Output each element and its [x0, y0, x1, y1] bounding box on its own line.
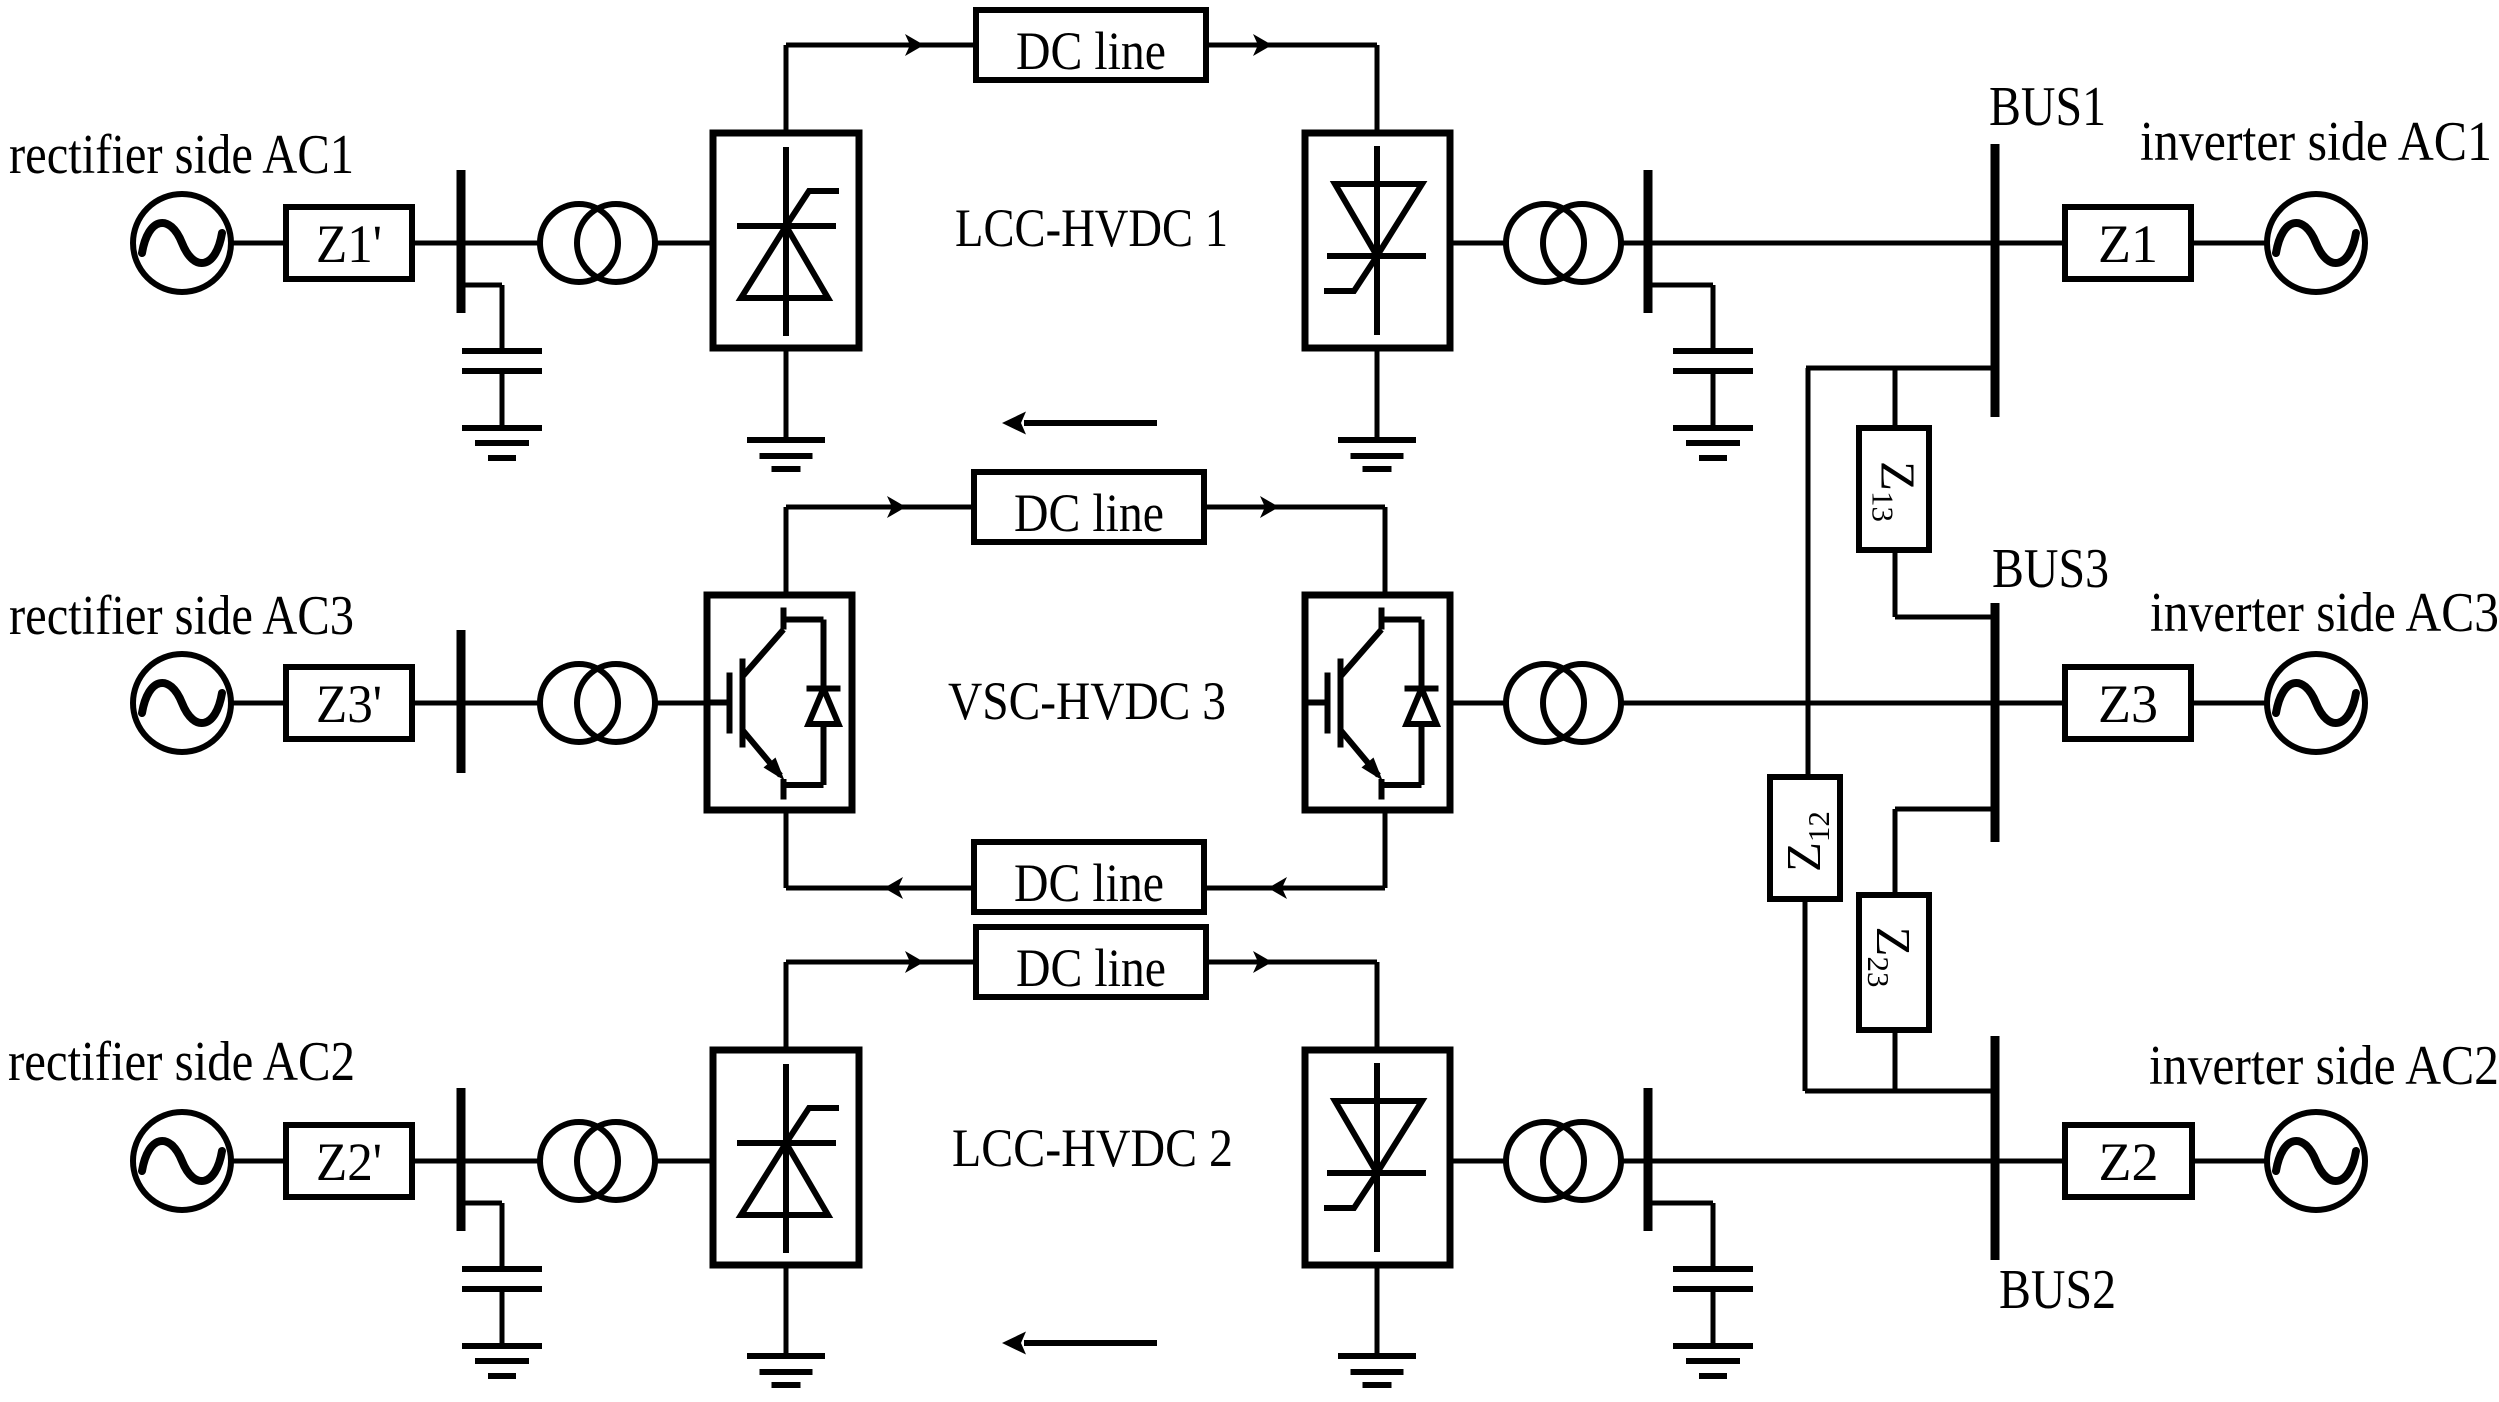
- svg-text:DC line: DC line: [1014, 853, 1164, 913]
- wire: [1383, 507, 1388, 595]
- wire: [466, 283, 503, 288]
- arrow DC line 3 bottom right: [1268, 877, 1287, 899]
- svg-text:DC line: DC line: [1016, 938, 1166, 998]
- wire: [786, 960, 976, 965]
- ground rectifier converter 2: [747, 1356, 825, 1385]
- wire: [466, 701, 541, 706]
- DC line 1 box: [976, 10, 1206, 81]
- AC source rectifier AC2: [133, 1112, 231, 1210]
- wire: [1653, 1201, 1714, 1206]
- thyristor valve rectifier 1: [737, 147, 839, 336]
- ground inverter converter 2: [1338, 1356, 1416, 1385]
- wire: [2191, 241, 2267, 246]
- wire: [1375, 348, 1380, 440]
- wire: [1450, 1159, 1506, 1164]
- wire: [1204, 886, 1385, 891]
- DC line 3 bottom box: [974, 842, 1204, 913]
- wire: [1893, 1030, 1898, 1091]
- impedance Z3': [286, 667, 412, 739]
- svg-text:inverter side AC2: inverter side AC2: [2149, 1035, 2499, 1097]
- impedance Z2: [2065, 1125, 2192, 1197]
- arrow DC line 1 left: [905, 34, 924, 56]
- wire: [784, 348, 789, 440]
- wire: [784, 810, 789, 888]
- thyristor valve inverter 2: [1324, 1063, 1426, 1252]
- ground inverter converter 1: [1338, 440, 1416, 469]
- arrow DC line 2 right: [1253, 951, 1272, 973]
- wire: [412, 241, 457, 246]
- wire: [1450, 701, 1506, 706]
- bus rectifier AC3: [457, 630, 466, 773]
- wire: [1895, 615, 1991, 620]
- DC line 2 box: [976, 927, 1206, 998]
- wire: [784, 507, 789, 595]
- arrow DC line 3 top left: [887, 496, 906, 518]
- BUS1 bar: [1991, 144, 2000, 417]
- svg-text:rectifier side AC1: rectifier side AC1: [9, 124, 354, 186]
- wire: [1621, 1159, 1644, 1164]
- filter capacitor and ground inverter AC1: [1673, 285, 1753, 458]
- wire: [230, 1159, 286, 1164]
- transformer inverter side 2: [1506, 1122, 1621, 1200]
- wire: [412, 701, 457, 706]
- power direction arrow row 1: [1002, 412, 1157, 435]
- svg-text:Z3: Z3: [2098, 674, 2158, 734]
- svg-text:Z3': Z3': [316, 674, 382, 734]
- wire: [655, 701, 707, 706]
- wire: [2000, 1159, 2066, 1164]
- AC source rectifier AC3: [133, 654, 231, 752]
- BUS3 bar: [1991, 603, 2000, 842]
- IGBT valve rectifier 3: [707, 608, 841, 800]
- converter box VSC rectifier 3: [707, 595, 852, 810]
- svg-text:inverter side AC3: inverter side AC3: [2150, 582, 2499, 644]
- wire: [1653, 241, 1991, 246]
- wire: [466, 241, 541, 246]
- AC source inverter AC3: [2267, 654, 2365, 752]
- wire: [1653, 1159, 1991, 1164]
- wire: [230, 701, 286, 706]
- arrow DC line 1 right: [1253, 34, 1272, 56]
- DC line 3 top box: [974, 472, 1204, 543]
- svg-text:BUS3: BUS3: [1992, 538, 2109, 600]
- wire: [655, 241, 713, 246]
- wire: [466, 1159, 541, 1164]
- transformer rectifier side 3: [540, 664, 655, 742]
- filter capacitor and ground rectifier AC2: [462, 1203, 542, 1376]
- transformer inverter side 1: [1506, 204, 1621, 282]
- AC source rectifier AC1: [133, 194, 231, 292]
- wire: [1895, 807, 1991, 812]
- impedance Z1: [2065, 207, 2191, 279]
- wire: [466, 1201, 503, 1206]
- wire: [1621, 701, 1991, 706]
- wire: [1268, 43, 1377, 48]
- wire: [1383, 810, 1388, 888]
- transformer rectifier side 1: [540, 204, 655, 282]
- wire: [784, 45, 789, 133]
- transformer rectifier side 2: [540, 1122, 655, 1200]
- wire: [1375, 962, 1380, 1050]
- wire: [1621, 241, 1644, 246]
- IGBT valve inverter 3: [1305, 608, 1439, 800]
- wire: [1893, 550, 1898, 617]
- converter box LCC rectifier 1: [713, 133, 859, 348]
- arrow DC line 2 left: [905, 951, 924, 973]
- wire: [1806, 368, 1811, 777]
- svg-text:DC line: DC line: [1016, 21, 1166, 81]
- converter box LCC inverter 2: [1305, 1050, 1450, 1265]
- AC source inverter AC1: [2267, 194, 2365, 292]
- wire node BUS1 tie: [1806, 366, 1991, 371]
- svg-text:DC line: DC line: [1014, 483, 1164, 543]
- filter capacitor and ground rectifier AC1: [462, 285, 542, 458]
- impedance Z12: [1770, 777, 1840, 899]
- wire: [1450, 241, 1506, 246]
- impedance Z13: [1859, 428, 1929, 550]
- svg-text:Z1': Z1': [316, 214, 382, 274]
- filter capacitor and ground inverter AC2: [1673, 1203, 1753, 1376]
- wire: [1204, 505, 1385, 510]
- wire: [2191, 701, 2267, 706]
- bus rectifier AC1: [457, 170, 466, 313]
- impedance Z2': [286, 1125, 412, 1197]
- svg-text:LCC-HVDC 2: LCC-HVDC 2: [952, 1118, 1233, 1178]
- bus inverter AC2: [1644, 1088, 1653, 1231]
- svg-text:BUS1: BUS1: [1989, 76, 2106, 138]
- bus inverter AC1: [1644, 170, 1653, 313]
- arrow DC line 3 bottom left: [884, 877, 903, 899]
- wire: [230, 241, 286, 246]
- wire: [2192, 1159, 2267, 1164]
- power direction arrow row 3: [1002, 1332, 1157, 1355]
- wire: [786, 505, 974, 510]
- transformer inverter side 3: [1506, 664, 1621, 742]
- svg-text:VSC-HVDC 3: VSC-HVDC 3: [948, 671, 1226, 731]
- wire: [786, 43, 976, 48]
- wire: [655, 1159, 713, 1164]
- impedance Z1': [286, 207, 412, 279]
- wire: [1893, 368, 1898, 428]
- bus rectifier AC2: [457, 1088, 466, 1231]
- AC source inverter AC2: [2267, 1112, 2365, 1210]
- wire: [1653, 283, 1714, 288]
- wire: [786, 886, 974, 891]
- BUS2 bar: [1991, 1036, 2000, 1260]
- svg-text:rectifier side AC3: rectifier side AC3: [9, 585, 354, 647]
- wire: [1206, 960, 1377, 965]
- converter box VSC inverter 3: [1305, 595, 1450, 810]
- wire: [1893, 809, 1898, 895]
- converter box LCC inverter 1: [1305, 133, 1450, 348]
- wire: [1375, 45, 1380, 133]
- wire: [784, 1265, 789, 1356]
- wire: [1803, 899, 1808, 1091]
- svg-text:Z2: Z2: [2099, 1132, 2159, 1192]
- impedance Z23: [1859, 895, 1929, 1030]
- wire: [784, 962, 789, 1050]
- wire: [1805, 1089, 1991, 1094]
- ground rectifier converter 1: [747, 440, 825, 469]
- svg-text:Z2': Z2': [316, 1132, 382, 1192]
- wire: [1375, 1265, 1380, 1356]
- impedance Z3: [2065, 667, 2191, 739]
- wire: [2000, 241, 2066, 246]
- converter box LCC rectifier 2: [713, 1050, 859, 1265]
- svg-text:inverter side AC1: inverter side AC1: [2140, 111, 2492, 173]
- thyristor valve rectifier 2: [737, 1064, 839, 1253]
- svg-text:rectifier side AC2: rectifier side AC2: [8, 1031, 355, 1093]
- wire: [412, 1159, 457, 1164]
- wire: [2000, 701, 2066, 706]
- arrow DC line 3 top right: [1260, 496, 1279, 518]
- thyristor valve inverter 1: [1324, 146, 1426, 335]
- svg-text:BUS2: BUS2: [1999, 1259, 2116, 1321]
- wire: [1206, 43, 1272, 48]
- svg-text:Z1: Z1: [2098, 214, 2158, 274]
- svg-text:LCC-HVDC 1: LCC-HVDC 1: [955, 198, 1228, 258]
